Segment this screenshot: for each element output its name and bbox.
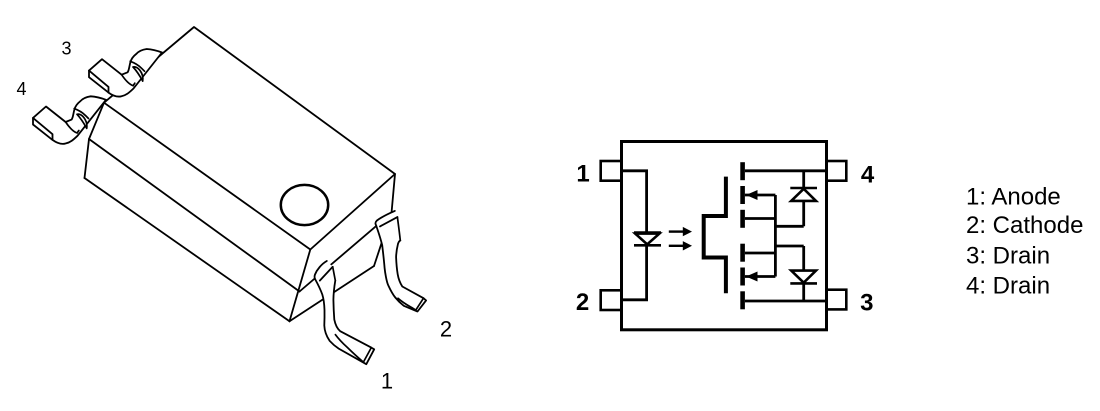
svg-text:4: Drain: 4: Drain — [966, 272, 1050, 299]
pin 2 stub — [601, 290, 622, 310]
MOSFET Q2 drain wire to pin3 — [745, 300, 827, 303]
light arrow upper — [669, 227, 692, 236]
package bottom-left edge — [85, 178, 290, 321]
MOSFET Q2 channel bar (lower) — [740, 244, 745, 310]
svg-text:1: Anode: 1: Anode — [966, 184, 1061, 211]
common source wire — [774, 195, 777, 277]
pin 3 stub — [827, 290, 847, 310]
package seam line left face — [89, 139, 300, 292]
lead pin 4 — [33, 96, 106, 144]
svg-text:4: 4 — [16, 79, 26, 99]
package left corner edge — [85, 103, 105, 178]
package seam line right face — [300, 213, 392, 292]
lead pin 3 — [89, 49, 162, 97]
package front corner edge — [290, 250, 311, 322]
MOSFET Q1 drain wire to pin4 — [745, 169, 827, 172]
svg-text:1: 1 — [381, 369, 393, 394]
photovoltaic gate driver / gate bars — [704, 177, 726, 294]
body diode DB1 branch wire upper — [775, 171, 803, 227]
svg-text:2: 2 — [440, 316, 452, 341]
svg-text:2: Cathode: 2: Cathode — [966, 212, 1083, 239]
svg-text:3: 3 — [61, 39, 71, 59]
wire pin1 to LED anode — [622, 171, 647, 233]
svg-text:4: 4 — [861, 162, 875, 189]
svg-text:1: 1 — [576, 161, 589, 188]
wire LED cathode to pin2 — [622, 245, 647, 299]
body diode DB2 branch wire lower — [775, 246, 803, 301]
MOSFET Q2 body arrow — [745, 272, 776, 282]
lead pin 1 — [315, 261, 375, 364]
pin 1 stub — [601, 161, 622, 181]
package bottom-right edge — [290, 266, 375, 321]
package dimple circle — [281, 185, 328, 225]
MOSFET Q1 body arrow — [745, 190, 776, 200]
body diode DB1 (upper) — [790, 188, 817, 201]
svg-text:3: 3 — [860, 290, 873, 317]
package body top face — [104, 27, 395, 250]
LED D1 — [634, 233, 661, 246]
MOSFET Q2 source wire — [745, 252, 776, 255]
schematic package box — [622, 142, 827, 330]
svg-text:2: 2 — [576, 289, 589, 316]
lead pin 2 — [375, 211, 426, 312]
package right corner edge — [374, 174, 395, 266]
body diode DB2 (lower) — [790, 271, 817, 284]
MOSFET Q1 channel bar (upper) — [740, 162, 745, 228]
svg-text:3: Drain: 3: Drain — [966, 242, 1050, 269]
MOSFET Q1 source wire — [745, 217, 776, 220]
light arrow lower — [669, 241, 692, 250]
pin 4 stub — [827, 161, 847, 181]
